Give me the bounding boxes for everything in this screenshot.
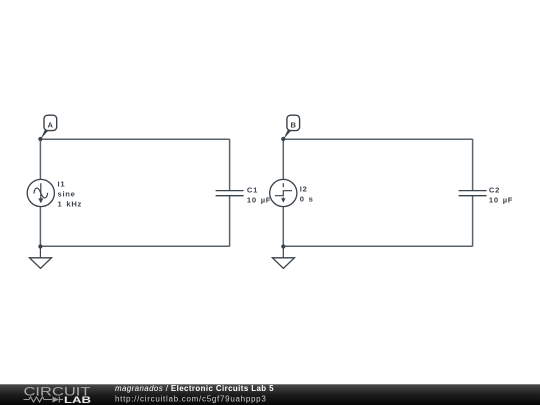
node A junction dot <box>38 137 42 141</box>
I1 value labels <box>58 180 83 209</box>
wire: left loop left vertical upper (node A to I1 top) <box>39 139 41 179</box>
ground (right) <box>272 247 294 269</box>
C2 value labels <box>489 185 513 204</box>
ground (right) junction dot <box>281 244 285 248</box>
svg-text:magranados / Electronic Circui: magranados / Electronic Circuits Lab 5 <box>115 384 274 393</box>
svg-text:A: A <box>48 121 54 130</box>
wire: right loop left vertical lower (I2 bottom to ground node) <box>282 207 284 247</box>
wire: right loop right vertical upper (to C2 top plate) <box>472 139 474 191</box>
svg-text:http://circuitlab.com/c5gf79ua: http://circuitlab.com/c5gf79uahppp3 <box>115 394 267 403</box>
current source I2 (step) <box>270 179 297 206</box>
wire: left loop left vertical lower (I1 bottom to ground node) <box>39 207 41 247</box>
svg-text:C2: C2 <box>489 185 500 194</box>
I2 value labels <box>300 184 314 203</box>
svg-text:I1: I1 <box>58 180 66 189</box>
wire: right loop left vertical upper (node B to I2 top) <box>282 139 284 179</box>
node B junction dot <box>281 137 285 141</box>
wire: left loop top segment <box>40 138 229 140</box>
svg-text:1 kHz: 1 kHz <box>58 200 83 209</box>
wire: left loop right vertical upper (to C1 top plate) <box>229 139 231 191</box>
C1 value labels <box>247 185 271 204</box>
ground (left) <box>30 247 52 269</box>
svg-text:B: B <box>290 121 296 130</box>
ground (left) junction dot <box>38 244 42 248</box>
CircuitLab logo: resistor zigzag and diode symbol <box>24 397 64 403</box>
svg-text:C1: C1 <box>247 185 258 194</box>
svg-text:0 s: 0 s <box>300 194 314 203</box>
wire: right loop bottom segment <box>283 245 472 247</box>
wire: left loop bottom segment <box>40 245 229 247</box>
current source I1 <box>27 179 54 206</box>
wire: right loop top segment <box>283 138 472 140</box>
capacitor C1 <box>216 191 244 196</box>
svg-text:LAB: LAB <box>64 395 91 405</box>
node A bubble <box>40 115 56 139</box>
svg-text:I2: I2 <box>300 184 308 193</box>
capacitor C2 <box>459 191 487 196</box>
svg-text:10 µF: 10 µF <box>489 195 513 204</box>
wire: left loop right vertical lower (C1 bottom plate to bottom wire) <box>229 196 231 247</box>
node B bubble <box>283 115 299 139</box>
svg-text:sine: sine <box>58 190 76 199</box>
svg-text:10 µF: 10 µF <box>247 195 271 204</box>
wire: right loop right vertical lower (C2 bottom plate to bottom wire) <box>472 196 474 247</box>
